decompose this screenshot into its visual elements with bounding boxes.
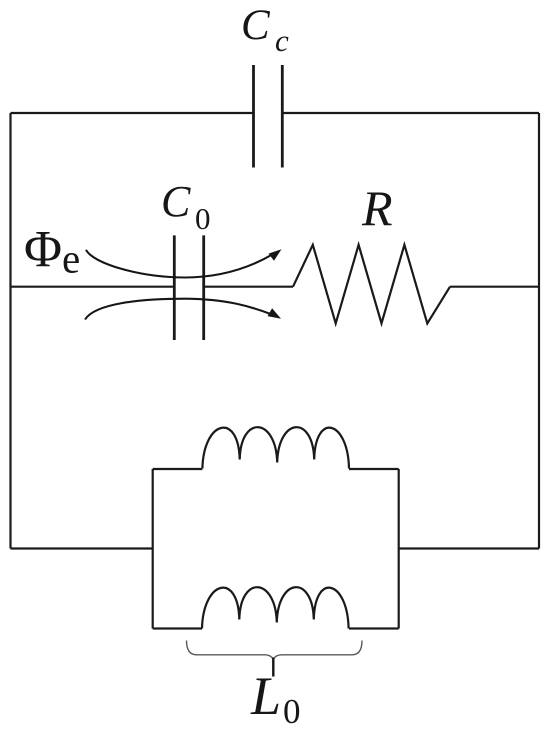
wire: middle branch center (between C0 and resistor) xyxy=(204,286,293,288)
flux arrow lower xyxy=(85,299,272,320)
svg-text:Φ: Φ xyxy=(24,221,62,278)
svg-text:R: R xyxy=(361,180,393,236)
svg-text:L: L xyxy=(250,666,281,726)
wire: outer box left vertical xyxy=(9,113,11,549)
svg-text:C: C xyxy=(161,177,191,226)
flux arrow lower head xyxy=(268,308,282,319)
wire: bottom-right segment xyxy=(399,547,539,549)
wire: top coil lead left xyxy=(153,468,203,470)
flux arrow upper head xyxy=(269,249,282,261)
svg-text:0: 0 xyxy=(195,201,211,236)
inductor bottom coil xyxy=(202,587,349,628)
flux arrow upper xyxy=(86,250,274,278)
wire: bottom coil lead left xyxy=(153,627,202,629)
wire: bottom coil lead right xyxy=(349,627,399,629)
wire: inductor block left vertical xyxy=(152,469,154,629)
capacitor Cc plates xyxy=(254,65,283,168)
wire: top coil lead right xyxy=(349,468,399,470)
brace under L0 xyxy=(187,641,363,660)
wire: middle branch left xyxy=(11,286,175,288)
wire: bottom-left segment xyxy=(11,547,153,549)
svg-text:0: 0 xyxy=(283,692,301,731)
wire: inductor block right vertical xyxy=(398,469,400,629)
brace stem xyxy=(272,658,274,677)
wire: top-right segment from Cc xyxy=(282,112,539,114)
capacitor C0 plates xyxy=(174,235,203,340)
svg-text:e: e xyxy=(62,236,80,282)
wire: middle branch right xyxy=(450,286,539,288)
svg-text:C: C xyxy=(241,2,271,49)
inductor top coil xyxy=(202,427,349,468)
svg-text:c: c xyxy=(275,23,289,58)
wire: top-left segment to Cc xyxy=(11,112,254,114)
wire: outer box right vertical xyxy=(538,113,540,549)
resistor R zigzag xyxy=(293,245,450,324)
